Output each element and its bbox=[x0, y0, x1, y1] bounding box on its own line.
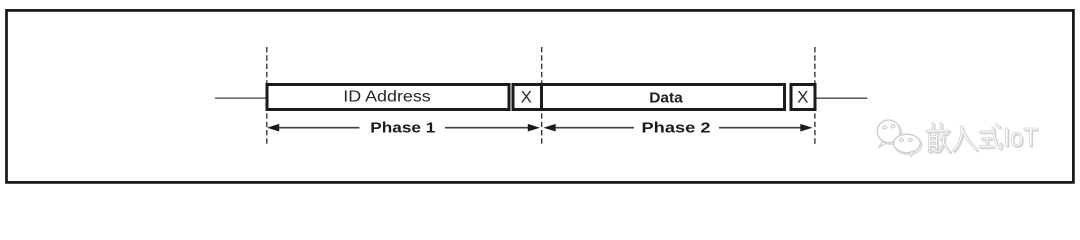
svg-text:Phase 1: Phase 1 bbox=[370, 120, 435, 137]
box X slot 2 bbox=[791, 85, 815, 110]
box X slot 1 bbox=[513, 85, 542, 110]
watermark logo bubbles bbox=[877, 120, 922, 157]
svg-text:Data: Data bbox=[649, 91, 683, 107]
watermark character ru (入) bbox=[954, 127, 978, 152]
watermark character qian (嵌) bbox=[927, 124, 951, 153]
svg-text:X: X bbox=[521, 88, 532, 107]
dimension arrow Phase 1 bbox=[267, 120, 540, 137]
dashed boundary line middle (Phase 1 / Phase 2) bbox=[541, 47, 543, 147]
dashed boundary line right (end of Phase 2) bbox=[814, 47, 816, 147]
dashed boundary line left (start of Phase 1) bbox=[266, 47, 268, 147]
outer frame bbox=[7, 10, 1074, 182]
svg-text:IoT: IoT bbox=[1004, 122, 1039, 152]
svg-text:Phase 2: Phase 2 bbox=[642, 120, 711, 137]
box Data bbox=[542, 85, 785, 110]
wire lead-in left bbox=[215, 97, 267, 99]
dimension arrow Phase 2 bbox=[544, 120, 813, 137]
watermark text IoT bbox=[1004, 122, 1040, 153]
box ID Address bbox=[267, 85, 509, 110]
svg-text:X: X bbox=[797, 88, 808, 107]
svg-text:ID Address: ID Address bbox=[343, 89, 431, 106]
wire lead-out right bbox=[816, 97, 867, 99]
watermark character shi (式) bbox=[980, 125, 1003, 150]
